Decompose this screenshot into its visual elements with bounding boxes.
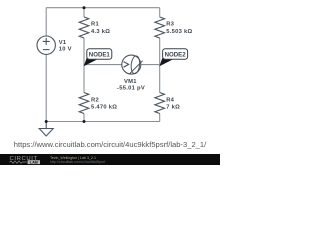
- wire right branch upper stub: [159, 8, 161, 17]
- voltage source V1: [37, 36, 55, 54]
- footer black bar: [0, 154, 220, 165]
- wire left branch upper: [45, 8, 47, 36]
- logo LAB chip: [28, 160, 40, 164]
- node junction dot bottom left: [45, 120, 48, 123]
- wire node1 to voltmeter: [84, 64, 122, 66]
- wire bottom horizontal: [46, 121, 160, 123]
- resistor R4: [155, 93, 165, 114]
- wire voltmeter to node2: [141, 64, 160, 66]
- wire right branch mid: [159, 38, 161, 93]
- node junction dot bottom middle: [83, 120, 86, 123]
- node NODE1 flag: [84, 49, 112, 66]
- wire middle branch mid: [83, 38, 85, 93]
- wire top horizontal: [46, 7, 160, 9]
- wire left branch lower: [45, 54, 47, 121]
- svg-text:LAB: LAB: [30, 160, 38, 165]
- resistor R2: [79, 93, 89, 114]
- node junction dot top: [83, 6, 86, 9]
- resistor R3: [155, 17, 165, 38]
- wire right branch lower stub: [159, 114, 161, 122]
- node NODE2 flag: [159, 49, 187, 66]
- wire middle branch upper stub: [83, 8, 85, 17]
- logo zigzag: [10, 161, 27, 163]
- voltmeter VM1: [122, 55, 141, 74]
- svg-text:http://circuitlab.com/c/4uc9kk: http://circuitlab.com/c/4uc9kkf5psrf: [50, 160, 105, 164]
- wire middle branch lower stub: [83, 114, 85, 122]
- resistor R1: [79, 17, 89, 38]
- ground: [45, 122, 47, 129]
